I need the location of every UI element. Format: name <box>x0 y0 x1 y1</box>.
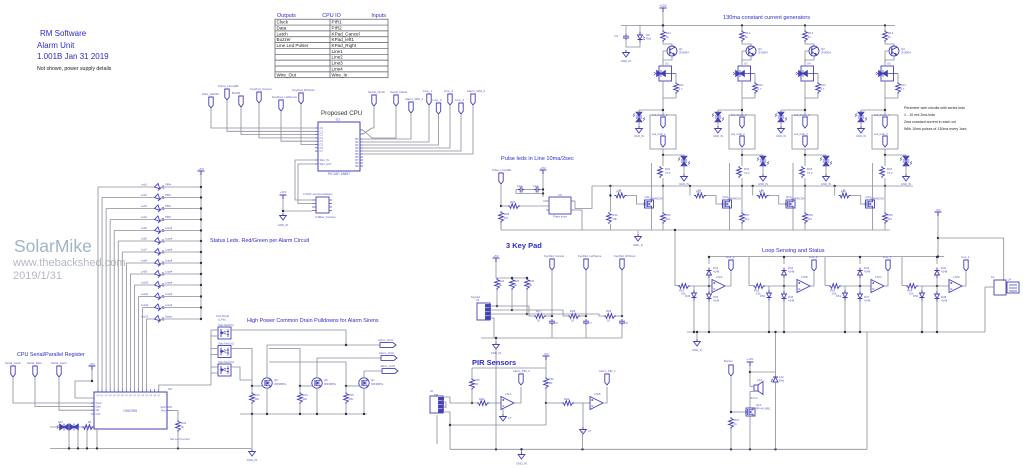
wire cc4 lp gnd <box>860 121 862 126</box>
svg-text:Loop#: Loop# <box>165 292 173 296</box>
terminal box cc2 <box>729 115 755 149</box>
svg-text:GND_IN: GND_IN <box>516 462 527 466</box>
wire to Serial_Clock <box>372 106 374 128</box>
wire Wire_OUT down <box>298 164 315 204</box>
junction <box>859 331 861 333</box>
svg-text:C7: C7 <box>589 321 593 325</box>
wire cc1 into box <box>662 61 664 66</box>
svg-text:Line_3: Line_3 <box>444 89 453 93</box>
svg-text:PIR: PIR <box>434 393 438 397</box>
svg-text:Led7: Led7 <box>141 248 147 252</box>
transistor Q14 SI4848DY <box>866 200 875 209</box>
svg-text:GND_IN: GND_IN <box>758 182 768 186</box>
LED D21 status <box>154 293 165 300</box>
wire cc1 a <box>662 26 664 31</box>
junction <box>708 256 710 258</box>
transistor Q11 SI4848DY <box>645 200 654 209</box>
svg-text:Led12: Led12 <box>141 303 149 307</box>
wire source Q5 <box>266 388 268 414</box>
resistor R57 4k2 <box>740 212 745 224</box>
LED D19 status <box>154 270 165 277</box>
wire pir gnd1 stub <box>502 409 504 414</box>
svg-text:Pulse leds in Line 10ma/2sec: Pulse leds in Line 10ma/2sec <box>501 156 574 162</box>
wire cc4 base v <box>884 51 886 60</box>
wire cc3 i <box>804 178 806 186</box>
wire <box>696 332 698 339</box>
wire gate join <box>731 411 746 413</box>
wire led13 left <box>147 318 154 320</box>
diode D45 down <box>707 291 712 302</box>
wire col3 rail <box>804 224 806 230</box>
svg-text:Led_Anode_1: Led_Anode_1 <box>652 114 668 117</box>
wire cc3 h <box>804 155 806 166</box>
capacitor C6 keypad <box>549 319 555 325</box>
junction <box>749 448 751 450</box>
wire col2 rail <box>741 224 743 230</box>
IC U6 pulse timer box <box>549 197 571 214</box>
resistor R22 2.7 <box>753 82 758 94</box>
svg-text:74.2: 74.2 <box>665 171 671 175</box>
wire CPU pin to tag x=450 <box>363 105 450 148</box>
svg-text:Wire_LED2k: Wire_LED2k <box>202 92 219 96</box>
port Led_Anode_3 <box>803 117 807 128</box>
wire cc3 base <box>805 50 809 52</box>
wire gate Q6 <box>300 385 312 387</box>
port Line_1 <box>427 94 431 105</box>
svg-text:Rext: Rext <box>161 410 166 413</box>
svg-text:+12V: +12V <box>659 4 667 8</box>
svg-text:Q10: Q10 <box>756 403 762 407</box>
wire buzzer gate <box>730 376 732 412</box>
port Led_Cath_3 <box>803 136 807 147</box>
svg-text:Latch: Latch <box>277 31 289 36</box>
transistor Q13 SI4848DY <box>786 200 795 209</box>
svg-text:KPad_Right: KPad_Right <box>332 43 357 48</box>
LED D23 status <box>154 315 165 322</box>
svg-text:Led2: Led2 <box>141 193 147 197</box>
LED D13 status <box>154 205 165 212</box>
wire led8 right <box>162 262 201 264</box>
svg-text:R40: R40 <box>479 397 485 401</box>
junction <box>662 24 664 26</box>
junction <box>282 210 284 212</box>
wire cc1 e <box>675 94 677 98</box>
svg-text:B9: B9 <box>355 164 359 168</box>
wire led9 left <box>130 273 154 275</box>
svg-text:GND_IN: GND_IN <box>634 134 644 138</box>
wire Pulse_Lines(BL to CPU pin <box>227 100 315 131</box>
resistor R29 keypad series <box>604 314 616 319</box>
ground cc1 left <box>636 126 643 133</box>
svg-text:Led1: Led1 <box>141 183 147 187</box>
svg-text:Wire_In: Wire_In <box>332 72 348 77</box>
buzzer LS1 <box>754 382 763 395</box>
svg-text:D50: D50 <box>760 294 766 298</box>
junction <box>884 154 886 156</box>
junction <box>859 285 861 287</box>
ground cc4 right <box>903 174 910 181</box>
svg-text:Proposed CPU: Proposed CPU <box>321 110 362 117</box>
wire loop3 ddn b <box>859 302 861 333</box>
wire pir sig e <box>574 402 590 404</box>
svg-text:LT1A: LT1A <box>505 392 512 396</box>
CPU pin names <box>320 126 360 168</box>
wire loop4 drop <box>901 257 903 286</box>
ground cc2 left <box>715 126 722 133</box>
resistor R35 10k <box>344 392 349 404</box>
wire cc4 rp up <box>905 155 907 157</box>
svg-text:U4: U4 <box>807 62 811 66</box>
junction <box>526 313 528 315</box>
svg-text:4k2: 4k2 <box>745 217 750 221</box>
wire loop3 mid <box>841 285 871 287</box>
wire kp pull2 join <box>511 290 513 310</box>
led pair ret cc1 <box>678 155 690 167</box>
wire cc4 g <box>884 149 886 155</box>
svg-text:Alarm_PIR_1: Alarm_PIR_1 <box>599 369 616 373</box>
svg-text:Led5: Led5 <box>141 226 147 230</box>
svg-text:Keypad: Keypad <box>471 295 480 299</box>
resistor R34 74.2 <box>880 166 885 178</box>
svg-text:Clock: Clock <box>96 402 103 405</box>
junction <box>471 402 473 404</box>
capacitor C8 keypad <box>619 319 625 325</box>
wire CPU pin to tag x=473 <box>363 105 473 154</box>
wire loop4 out <box>962 272 966 286</box>
optocoupler U11 <box>218 327 231 339</box>
svg-text:PIR2: PIR2 <box>332 25 343 30</box>
wire speaker t1 <box>750 386 754 388</box>
svg-text:K1: K1 <box>991 275 995 279</box>
ground adapter <box>280 213 287 220</box>
LED D16 status <box>154 237 165 244</box>
junction <box>741 109 743 111</box>
diode D47 down <box>858 291 863 302</box>
svg-text:10k: 10k <box>349 397 354 401</box>
wire pulse out up <box>571 186 592 209</box>
junction <box>884 185 886 187</box>
port Serial_Data <box>33 366 37 377</box>
svg-text:R29: R29 <box>606 309 612 313</box>
svg-text:GND_In: GND_In <box>692 348 703 352</box>
wire cc2 lp up <box>717 110 719 113</box>
svg-text:C?: C? <box>508 416 512 420</box>
led pair ret cc2 <box>757 155 769 167</box>
resistor R12 cc2 top <box>740 30 745 42</box>
wire pir fb up <box>545 403 547 425</box>
svg-text:LT1B: LT1B <box>594 392 601 396</box>
wire loop2 drop <box>748 257 750 286</box>
junction <box>752 185 754 187</box>
power +5V status <box>198 171 205 175</box>
resistor R9 small <box>82 425 94 430</box>
wire led1 left <box>98 186 154 188</box>
ground cc3 right <box>823 174 830 181</box>
wire cc1 sense <box>675 74 677 83</box>
wire kp gnd stub <box>495 338 497 342</box>
svg-text:Serial_Data: Serial_Data <box>27 361 42 365</box>
wire pulse c <box>501 205 508 207</box>
resistor R36 1M <box>544 377 549 389</box>
wire led12 right <box>162 307 201 309</box>
wire pulse d <box>520 205 549 207</box>
wire fet source <box>749 417 751 450</box>
svg-text:D49: D49 <box>685 294 691 298</box>
wire KeyPad_Cancel to CPU pin <box>259 103 315 138</box>
svg-text:Alarm Unit: Alarm Unit <box>37 41 75 50</box>
wire Wire_IN down <box>295 160 315 200</box>
wire drain Q7 <box>363 371 365 378</box>
junction <box>621 315 623 317</box>
junction <box>884 109 886 111</box>
wire loop to buzzer area <box>775 332 777 372</box>
optocoupler U12 <box>218 346 231 358</box>
wire col1 rail <box>662 224 664 230</box>
wire res gnd Q7 <box>345 404 347 414</box>
svg-text:2.7: 2.7 <box>901 87 905 91</box>
power +12V rail <box>660 8 667 12</box>
svg-text:Loop#: Loop# <box>165 270 173 274</box>
junction <box>774 331 776 333</box>
junction <box>177 447 179 449</box>
wire loop4 d2 b <box>921 301 923 333</box>
svg-text:2N3904: 2N3904 <box>821 51 831 55</box>
svg-text:10k: 10k <box>255 397 260 401</box>
wire cc1 g <box>662 149 664 155</box>
ground cc2 right <box>760 174 767 181</box>
junction <box>936 256 938 258</box>
wire cc2 rp join <box>742 154 763 156</box>
junction <box>511 309 513 311</box>
wire opto3 in a <box>211 366 218 368</box>
wire pir r35 up <box>471 368 473 378</box>
junction <box>783 285 785 287</box>
regulator U4 box <box>801 66 814 81</box>
svg-text:C7: C7 <box>320 149 324 153</box>
junction <box>299 413 301 415</box>
svg-text:Pulse_Lines(BL: Pulse_Lines(BL <box>218 84 239 88</box>
wire <box>364 370 382 372</box>
svg-text:Wire_Out: Wire_Out <box>277 72 297 77</box>
svg-text:Line_1: Line_1 <box>423 89 432 93</box>
wire kp pwr stem <box>495 262 497 278</box>
svg-text:LT2D: LT2D <box>953 275 960 279</box>
resistor R27 keypad series <box>534 314 546 319</box>
junction <box>804 185 806 187</box>
wire cc1 b <box>663 42 672 47</box>
junction <box>708 285 710 287</box>
junction <box>496 305 498 307</box>
resistor R13 cc3 top <box>803 30 808 42</box>
svg-text:Serial_Data2: Serial_Data2 <box>390 90 408 94</box>
wire cc4 f <box>885 97 898 99</box>
wire <box>269 362 346 386</box>
svg-text:Loop#: Loop# <box>165 259 173 263</box>
resistor R42 gate <box>694 193 706 198</box>
wire led8 down <box>125 263 127 389</box>
svg-text:+5V: +5V <box>493 254 498 258</box>
diode D46 down <box>782 291 787 302</box>
svg-text:BUZR: BUZR <box>232 91 241 95</box>
LED D14 status <box>154 216 165 223</box>
wire <box>687 331 985 333</box>
power +3V3 adapter <box>280 195 287 199</box>
svg-text:www.thebackshed.com: www.thebackshed.com <box>12 257 126 269</box>
part <box>176 420 181 432</box>
svg-text:Led_Cath_4: Led_Cath_4 <box>874 133 888 136</box>
wire <box>592 185 913 187</box>
register top pins <box>98 389 159 392</box>
wire pir2 gnd drop <box>582 431 584 449</box>
diode D52 <box>920 290 925 301</box>
wire led2 left <box>102 197 154 199</box>
wire Serial_Data to register <box>35 377 94 407</box>
svg-text:Perimeter wire circuits with s: Perimeter wire circuits with series leds <box>904 106 965 110</box>
junction <box>200 306 202 308</box>
wire cc3 e <box>817 94 819 98</box>
resistor R41 gate <box>614 193 626 198</box>
junction <box>741 185 743 187</box>
wire d30 drop <box>68 427 70 448</box>
svg-text:Line_2: Line_2 <box>809 255 818 259</box>
port Wire_LED2k <box>209 97 213 108</box>
resistor R25 4k keypad <box>510 278 515 290</box>
port Led_Cath_4 <box>883 136 887 147</box>
svg-text:10k: 10k <box>612 217 617 221</box>
svg-text:1M: 1M <box>504 216 509 220</box>
port Serial_Clock <box>11 366 15 377</box>
power +5V pir <box>543 356 550 360</box>
led pair out cc3 <box>775 111 787 123</box>
wire cc4 c <box>885 56 894 64</box>
svg-text:Opto NextCh2: Opto NextCh2 <box>218 343 234 346</box>
svg-text:C9: C9 <box>614 34 618 38</box>
wire cc4 e <box>897 94 899 98</box>
wire cc4 base <box>885 50 889 52</box>
svg-text:Not shown, power supply detail: Not shown, power supply details <box>37 66 112 72</box>
led pair out cc1 <box>633 111 645 123</box>
wire kp tag 1 down <box>551 270 553 316</box>
wire led7 down <box>121 252 123 389</box>
resistor R31 74.2 <box>658 166 663 178</box>
wire loop2 out <box>810 272 814 286</box>
svg-text:U1: U1 <box>336 118 340 122</box>
wire drv3 source <box>792 209 794 231</box>
svg-text:Led_Cath_3: Led_Cath_3 <box>794 133 808 136</box>
wire loop2 in <box>749 285 753 287</box>
junction <box>200 186 202 188</box>
wire opto3 in a <box>211 329 218 331</box>
wire <box>937 216 939 257</box>
wire gate Q7 <box>346 385 359 387</box>
diode D41 up <box>707 268 712 279</box>
wire led11 right <box>162 296 201 298</box>
wire led9 down <box>129 274 131 389</box>
port Serial_Data2 <box>394 95 398 106</box>
wire loop1 ddn a <box>708 286 710 294</box>
wire pulse pwr c <box>543 200 549 202</box>
wire led13 down <box>146 319 148 389</box>
svg-text:Status: Status <box>165 315 173 319</box>
wire led1 right <box>162 186 201 188</box>
wire led5 left <box>114 230 154 232</box>
svg-text:Line1: Line1 <box>332 49 344 54</box>
wire relay drop <box>984 287 986 332</box>
wire gnd bottom stub <box>521 449 523 452</box>
junction <box>316 413 318 415</box>
wire buzzer pwr <box>749 366 751 387</box>
wire cc2 d <box>741 81 743 115</box>
wire cc4 b <box>885 42 894 47</box>
port Alarm_Out2 <box>381 356 397 361</box>
svg-text:LS1: LS1 <box>757 378 762 382</box>
wire cc1 lp join <box>639 109 663 111</box>
transistor Q7 IRF3805L <box>359 378 369 388</box>
resistor R23 2.7 <box>816 82 821 94</box>
wire drv3 c <box>769 196 786 205</box>
wire register rext <box>172 411 178 420</box>
wire gate res Q6 <box>299 386 301 392</box>
junction <box>200 207 202 209</box>
svg-text:4148: 4148 <box>788 299 795 303</box>
wire <box>496 277 527 279</box>
svg-text:Led_Cath_1: Led_Cath_1 <box>652 133 666 136</box>
wire relay a <box>985 286 994 288</box>
wire pulse pwr stem <box>542 174 544 197</box>
junction <box>585 315 587 317</box>
svg-text:PR-4A-24BC: PR-4A-24BC <box>756 408 771 411</box>
svg-text:Loop#: Loop# <box>165 237 173 241</box>
wire cc3 into box <box>804 61 806 66</box>
svg-text:74.2: 74.2 <box>744 171 750 175</box>
ground cc1 right <box>681 174 688 181</box>
svg-text:Led4: Led4 <box>141 215 147 219</box>
wire loop right drop <box>866 332 868 449</box>
port Buzzer <box>729 365 733 376</box>
wire led6 left <box>118 240 154 242</box>
transistor Q10 buzzer <box>746 408 755 417</box>
resistor R32 74.2 <box>737 166 742 178</box>
op-amp LT2A <box>712 280 725 293</box>
ground cc4 left <box>858 126 865 133</box>
wire loop3 d2 b <box>844 301 846 333</box>
svg-text:+5V: +5V <box>540 166 545 170</box>
svg-text:74.2: 74.2 <box>887 171 893 175</box>
wire cap leg a <box>625 26 627 35</box>
svg-text:1M: 1M <box>549 381 554 385</box>
svg-text:Red: Red <box>779 379 785 383</box>
port Led_Cath_2 <box>740 136 744 147</box>
wire loop4 ddn a <box>936 286 938 294</box>
wire opto3 out <box>231 367 252 380</box>
svg-text:Alarm_Out1: Alarm_Out1 <box>378 338 393 342</box>
wire cc4 into box <box>884 61 886 66</box>
svg-text:Wire_OUT: Wire_OUT <box>320 162 333 166</box>
resistor R63 10k <box>829 284 841 289</box>
wire kp pull1 join <box>496 290 498 306</box>
junction <box>689 185 691 187</box>
junction <box>86 447 88 449</box>
svg-text:Data: Data <box>277 25 287 30</box>
diode D51 <box>843 290 848 301</box>
wire led4 right <box>162 219 201 221</box>
svg-text:Led3: Led3 <box>141 204 147 208</box>
wire pir conn c <box>443 406 446 408</box>
wire kp res 3 to tag <box>616 315 622 317</box>
wire loop1 ddn b <box>708 302 710 333</box>
wire <box>317 357 381 359</box>
wire opto3 in b <box>211 335 218 337</box>
